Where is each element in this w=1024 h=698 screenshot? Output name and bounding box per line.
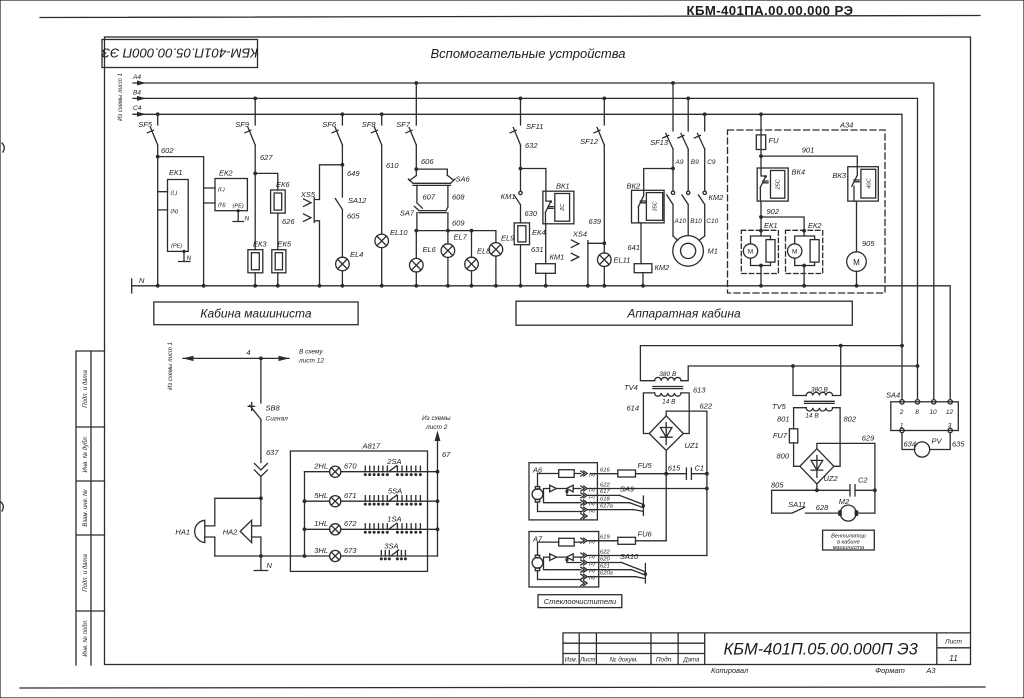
A817 left rail [303, 472, 307, 556]
svg-text:SF6: SF6 [322, 120, 337, 129]
svg-text:629: 629 [862, 434, 875, 443]
svg-text:ЕL11: ЕL11 [614, 256, 631, 265]
svg-text:637: 637 [266, 448, 279, 457]
wire 802 [833, 408, 857, 467]
lamp 3HL row 673 [305, 542, 438, 562]
svg-text:620: 620 [600, 556, 610, 562]
svg-text:М1: М1 [708, 247, 718, 256]
lamp EL11 [598, 253, 631, 288]
svg-text:3SA: 3SA [384, 542, 398, 551]
svg-text:2HL: 2HL [313, 462, 328, 471]
svg-text:618: 618 [600, 497, 610, 503]
svg-text:SA7: SA7 [400, 209, 415, 218]
wiper unit A7 [529, 532, 599, 588]
svg-text:628: 628 [816, 503, 829, 512]
contactor contacts KM2 (3-pole) [667, 191, 724, 236]
switch SA11 [772, 490, 806, 513]
svg-text:КМ1: КМ1 [550, 253, 565, 262]
label box: apparatus cab [516, 301, 852, 325]
lamp EL6 [410, 231, 437, 288]
svg-text:(N): (N) [171, 209, 179, 215]
motor M1 [673, 236, 718, 267]
horn HA1 [175, 520, 204, 542]
svg-text:ТV4: ТV4 [624, 383, 638, 392]
rectifier UZ1 [649, 416, 698, 451]
svg-text:2С: 2С [560, 203, 566, 212]
svg-text:С2: С2 [858, 476, 868, 485]
wire 614 [627, 393, 655, 434]
svg-text:SF13: SF13 [650, 138, 669, 147]
lamp EL8 [465, 231, 491, 288]
svg-text:FU7: FU7 [773, 431, 788, 440]
svg-text:617а: 617а [600, 503, 614, 509]
svg-text:SF12: SF12 [580, 137, 599, 146]
svg-text:М: М [748, 249, 753, 256]
wire 615 [636, 451, 687, 541]
wire to BK1 [521, 169, 546, 192]
drawing frame [105, 37, 971, 665]
heater EK1 [158, 168, 189, 251]
wire 602 to EK2 [158, 157, 206, 288]
transformer TV4 [624, 371, 683, 406]
svg-text:Подп.: Подп. [656, 656, 673, 664]
breaker SF5 [138, 112, 159, 145]
svg-text:ЕL7: ЕL7 [454, 233, 468, 242]
capacitor C1 [686, 464, 707, 480]
svg-text:622: 622 [700, 402, 713, 411]
svg-text:14 В: 14 В [662, 399, 676, 406]
resistor EK6 [271, 180, 296, 250]
wire 629 [817, 434, 877, 514]
svg-text:А9: А9 [675, 159, 684, 166]
svg-text:673: 673 [344, 546, 357, 555]
scan artifacts [2, 143, 4, 152]
A6 pins [581, 471, 596, 519]
coil KM1 [536, 253, 565, 288]
svg-text:SA10: SA10 [620, 552, 639, 561]
svg-text:N: N [139, 276, 145, 285]
svg-text:622: 622 [600, 549, 610, 555]
svg-text:SF7: SF7 [396, 120, 411, 129]
module A34 dashed box [728, 121, 886, 294]
svg-text:670: 670 [344, 462, 357, 471]
svg-text:UZ1: UZ1 [685, 441, 699, 450]
wire 632 node [519, 141, 539, 191]
svg-text:В9: В9 [691, 159, 699, 166]
svg-text:(PE): (PE) [171, 244, 182, 250]
svg-text:FU6: FU6 [638, 530, 653, 539]
svg-text:801: 801 [777, 415, 790, 424]
svg-text:С1: С1 [695, 464, 705, 473]
horn HA2 [223, 520, 252, 542]
svg-text:620а: 620а [600, 571, 614, 577]
breaker SF9 [235, 97, 257, 146]
svg-text:SF9: SF9 [235, 120, 250, 129]
svg-text:Изм.: Изм. [565, 658, 578, 664]
svg-text:М: М [853, 258, 860, 267]
pushbutton SB8 [248, 403, 288, 423]
svg-text:641: 641 [627, 243, 640, 252]
svg-text:622: 622 [600, 482, 610, 488]
svg-text:лист 12: лист 12 [298, 358, 324, 365]
wire to XS5 [315, 165, 343, 288]
svg-text:А4: А4 [132, 74, 141, 81]
heater-motor EK1 [741, 221, 778, 288]
svg-text:А817: А817 [362, 442, 381, 451]
capacitor C2 [850, 476, 875, 497]
breaker SF6 [322, 112, 344, 145]
svg-text:11: 11 [949, 653, 958, 663]
svg-text:ЕL9: ЕL9 [501, 234, 515, 243]
wire 613 [681, 386, 706, 434]
svg-text:25С: 25С [776, 178, 782, 190]
svg-text:SF11: SF11 [526, 122, 543, 131]
svg-text:SB8: SB8 [266, 404, 281, 413]
lamp EL9 [489, 231, 515, 288]
thermostat BK3 [832, 167, 878, 252]
svg-text:671: 671 [344, 491, 357, 500]
svg-text:ЕК1: ЕК1 [169, 168, 183, 177]
svg-text:(1): (1) [589, 539, 595, 545]
svg-text:Аппаратная кабина: Аппаратная кабина [626, 307, 741, 321]
svg-text:КМ1: КМ1 [501, 192, 516, 201]
svg-text:SA4: SA4 [886, 391, 900, 400]
node 902 [759, 207, 804, 231]
wire 639 [588, 145, 606, 253]
svg-text:10: 10 [929, 409, 937, 416]
svg-text:(1): (1) [589, 472, 595, 478]
svg-text:КМ2: КМ2 [709, 193, 725, 202]
lamp EL4 [336, 250, 364, 288]
voltmeter PV [902, 433, 965, 457]
svg-text:607: 607 [423, 193, 436, 202]
wire 602 [156, 145, 175, 288]
ground N [254, 556, 272, 571]
svg-text:SF8: SF8 [362, 120, 377, 129]
svg-text:Лист: Лист [579, 658, 595, 664]
svg-text:5SA: 5SA [388, 487, 402, 496]
svg-text:Инв. № дубл.: Инв. № дубл. [82, 436, 89, 473]
heater EK2 [204, 169, 248, 211]
nodes A10 B10 C10 [674, 218, 719, 225]
left sidebar cells [76, 351, 105, 665]
node 901 [759, 146, 857, 167]
label box: driver cab [154, 302, 358, 325]
svg-text:Копировал: Копировал [711, 666, 749, 675]
svg-text:40С: 40С [866, 178, 872, 189]
contactor contact KM1 [501, 191, 523, 223]
nodes A9 B9 C9 [671, 149, 716, 191]
svg-text:672: 672 [344, 519, 357, 528]
wire 628 [806, 503, 839, 513]
svg-text:602: 602 [161, 146, 174, 155]
svg-text:ЕК1: ЕК1 [764, 221, 778, 230]
svg-text:SF5: SF5 [138, 120, 153, 129]
svg-text:Взам. инв. №: Взам. инв. № [82, 489, 89, 527]
wire 610 [382, 145, 400, 234]
N bus [132, 276, 951, 400]
svg-text:ВК2: ВК2 [627, 182, 641, 191]
svg-text:М: М [792, 249, 797, 256]
svg-text:XS5: XS5 [300, 190, 316, 199]
svg-text:ЕК6: ЕК6 [276, 180, 290, 189]
svg-text:XS4: XS4 [572, 230, 587, 239]
svg-text:Стеклоочистители: Стеклоочистители [544, 597, 617, 606]
svg-text:SA12: SA12 [348, 196, 367, 205]
thermostat BK1 [543, 182, 574, 224]
thermostat BK4 [757, 156, 805, 217]
svg-text:ЕL6: ЕL6 [423, 245, 437, 254]
svg-text:610: 610 [386, 161, 399, 170]
transformer TV5 [772, 346, 841, 420]
socket XS5 [300, 190, 316, 223]
svg-text:905: 905 [862, 239, 875, 248]
svg-text:608: 608 [452, 193, 465, 202]
svg-text:ЕК3: ЕК3 [253, 240, 267, 249]
title block [563, 633, 971, 675]
wire 805 [771, 481, 850, 493]
bus B4 [133, 90, 918, 400]
svg-text:619: 619 [600, 534, 610, 540]
svg-text:14 В: 14 В [805, 413, 819, 420]
svg-text:ЕL10: ЕL10 [390, 228, 408, 237]
svg-text:ЕК2: ЕК2 [219, 169, 233, 178]
svg-text:ЕК5: ЕК5 [278, 240, 292, 249]
svg-text:632: 632 [525, 141, 538, 150]
switch SA10 [620, 552, 647, 583]
socket XS4 [571, 230, 604, 288]
scan top edge line [40, 16, 980, 18]
svg-text:С9: С9 [707, 159, 716, 166]
svg-text:НА1: НА1 [175, 528, 190, 537]
svg-text:ЕК4: ЕК4 [532, 228, 546, 237]
svg-text:ЕК2: ЕК2 [808, 221, 822, 230]
fan selector SA7 (element 609) [400, 185, 466, 230]
bottom rail to A817 [215, 554, 307, 558]
breaker SF12 [580, 97, 606, 147]
svg-text:А3: А3 [925, 666, 936, 675]
svg-text:Из схемы лист 1: Из схемы лист 1 [118, 73, 124, 121]
breaker SF7 [396, 81, 418, 145]
stamp box (rotated doc number) [102, 40, 258, 68]
svg-text:616: 616 [600, 467, 610, 473]
switch SA9 [620, 485, 646, 516]
svg-text:635: 635 [952, 440, 965, 449]
svg-text:800: 800 [776, 452, 789, 461]
wire 801 [777, 408, 806, 429]
svg-text:380 В: 380 В [659, 371, 677, 378]
svg-text:ВК4: ВК4 [792, 168, 806, 177]
svg-text:N: N [187, 255, 192, 262]
resistor EK3 [248, 240, 268, 288]
svg-text:631: 631 [531, 245, 544, 254]
ground under EK1 [179, 250, 192, 262]
svg-text:613: 613 [693, 386, 706, 395]
heater-motor EK2 [786, 221, 823, 288]
breaker SF11 [510, 97, 543, 146]
wire 4 with arrows [183, 348, 324, 365]
A7 pins [581, 538, 596, 586]
svg-text:С4: С4 [133, 105, 142, 112]
svg-text:8: 8 [915, 409, 919, 416]
wire BK2 branch [644, 169, 673, 191]
svg-text:(N): (N) [218, 203, 226, 209]
svg-text:(PE): (PE) [233, 204, 244, 210]
svg-text:SA6: SA6 [456, 175, 471, 184]
resistor EK4 [514, 223, 545, 288]
horn loop wires [205, 498, 261, 556]
thermostat BK2 [627, 182, 665, 264]
svg-text:Подп. и дата: Подп. и дата [83, 370, 89, 408]
wire 622 [666, 402, 713, 556]
svg-text:5HL: 5HL [314, 491, 328, 500]
wire 67 to sheet 2 [422, 415, 451, 556]
svg-text:С10: С10 [706, 218, 718, 225]
svg-text:Формат: Формат [875, 666, 905, 675]
svg-text:А10: А10 [674, 218, 687, 225]
svg-text:N: N [267, 561, 273, 570]
380V line B-phase [681, 364, 919, 381]
wire to SB8 [260, 358, 262, 403]
svg-text:машиниста: машиниста [833, 545, 864, 551]
wire to EK6 [255, 173, 278, 190]
svg-text:Сигнал: Сигнал [266, 416, 289, 423]
svg-text:НА2: НА2 [223, 528, 238, 537]
svg-text:606: 606 [421, 157, 434, 166]
svg-text:Из схемы: Из схемы [422, 415, 451, 422]
svg-text:639: 639 [588, 217, 601, 226]
svg-text:КБМ-401П.05.00.000П Э3: КБМ-401П.05.00.000П Э3 [724, 641, 919, 659]
svg-text:В4: В4 [133, 90, 141, 97]
svg-text:№ докум.: № докум. [609, 656, 638, 664]
svg-text:621: 621 [600, 564, 610, 570]
svg-text:2SA: 2SA [386, 457, 401, 466]
svg-text:ТV5: ТV5 [772, 402, 787, 411]
svg-text:649: 649 [347, 169, 360, 178]
svg-text:67: 67 [442, 450, 451, 459]
svg-text:FU5: FU5 [638, 461, 653, 470]
svg-text:614: 614 [627, 404, 640, 413]
switch block SA4 [886, 391, 958, 433]
bus A4 [132, 74, 934, 400]
lamp EL10 [375, 228, 408, 288]
fan motor M2 [838, 497, 875, 521]
svg-text:12: 12 [946, 409, 954, 416]
svg-text:лист 2: лист 2 [425, 424, 448, 431]
svg-text:Подп. и дата: Подп. и дата [83, 554, 89, 592]
fan selector SA6 (element 607/608) [408, 169, 470, 201]
wire 627 [253, 145, 273, 250]
breaker SF8 [362, 112, 384, 145]
svg-text:КБМ-401П.05.00.000П ЭЗ: КБМ-401П.05.00.000П ЭЗ [102, 46, 258, 61]
svg-text:(L): (L) [218, 187, 225, 193]
ground under EK2 [233, 209, 250, 222]
fuse FU [756, 112, 779, 156]
svg-text:КМ2: КМ2 [655, 263, 671, 272]
380V line C-phase [640, 344, 903, 381]
label box fan [823, 530, 875, 551]
bus C4 [133, 105, 902, 400]
svg-text:626: 626 [282, 217, 295, 226]
svg-text:3HL: 3HL [314, 546, 328, 555]
wire 631 [531, 224, 546, 264]
lamp rail [414, 229, 496, 233]
fuse FU5 [590, 461, 652, 477]
svg-text:В схему: В схему [299, 349, 323, 356]
svg-text:(L): (L) [171, 191, 178, 197]
svg-text:Лист: Лист [944, 639, 962, 646]
svg-text:615: 615 [668, 464, 681, 473]
svg-text:FU: FU [769, 136, 780, 145]
scan bottom edge line [20, 687, 985, 688]
lamp 1HL row 672 [305, 515, 440, 535]
svg-text:35С: 35С [653, 200, 659, 211]
lamp 5HL row 671 [305, 487, 440, 507]
lamp 2HL row 670 [305, 457, 440, 477]
svg-text:1SA: 1SA [387, 515, 401, 524]
svg-text:902: 902 [767, 207, 780, 216]
wire 649 node [341, 145, 361, 197]
svg-text:А34: А34 [839, 121, 853, 130]
svg-text:901: 901 [802, 146, 815, 155]
coil KM2 [634, 263, 670, 288]
wire to horn node [259, 477, 263, 501]
wiper unit A6 [529, 463, 597, 520]
breaker SF13 (3-pole) [650, 81, 707, 149]
block A817 [290, 442, 427, 572]
svg-text:Инв. № подл.: Инв. № подл. [82, 619, 89, 656]
svg-text:805: 805 [771, 481, 784, 490]
svg-text:Кабина машиниста: Кабина машиниста [200, 307, 311, 321]
svg-text:В10: В10 [690, 218, 702, 225]
svg-text:2: 2 [899, 409, 904, 416]
switch SA12 [335, 196, 367, 257]
resistor EK5 [272, 240, 292, 288]
fuse FU7 [773, 429, 800, 467]
svg-text:617: 617 [600, 489, 610, 495]
svg-text:Дата: Дата [682, 658, 699, 664]
fuse FU6 [590, 530, 666, 545]
svg-text:PV: PV [932, 437, 943, 446]
svg-text:605: 605 [347, 212, 360, 221]
A7 wires 619 622 620 621 620a [587, 534, 707, 576]
connector chevrons [254, 464, 267, 477]
svg-text:ВК3: ВК3 [832, 171, 846, 180]
svg-text:634: 634 [904, 440, 917, 449]
svg-text:КБМ-401ПА.00.00.000 РЭ: КБМ-401ПА.00.00.000 РЭ [687, 3, 854, 18]
svg-text:ЕL4: ЕL4 [350, 250, 363, 259]
svg-text:Вспомогательные устройства: Вспомогательные устройства [431, 46, 626, 61]
svg-text:1HL: 1HL [314, 519, 328, 528]
svg-text:630: 630 [525, 209, 538, 218]
rectifier UZ2 [800, 449, 839, 484]
svg-text:627: 627 [260, 153, 273, 162]
wire 637 [261, 420, 279, 463]
wire 606 node [414, 145, 434, 176]
svg-text:802: 802 [844, 415, 857, 424]
svg-text:N: N [245, 216, 250, 223]
svg-text:SA9: SA9 [620, 485, 635, 494]
label box wipers [538, 595, 622, 608]
fan motor M (905) [847, 252, 867, 288]
svg-text:ВК1: ВК1 [556, 182, 570, 191]
svg-text:4: 4 [246, 348, 250, 357]
A6 wires 616 622 617 618 617a [587, 467, 707, 509]
svg-text:609: 609 [452, 219, 465, 228]
svg-text:Из схемы лист 1: Из схемы лист 1 [168, 342, 174, 390]
lamp EL7 [441, 231, 468, 288]
